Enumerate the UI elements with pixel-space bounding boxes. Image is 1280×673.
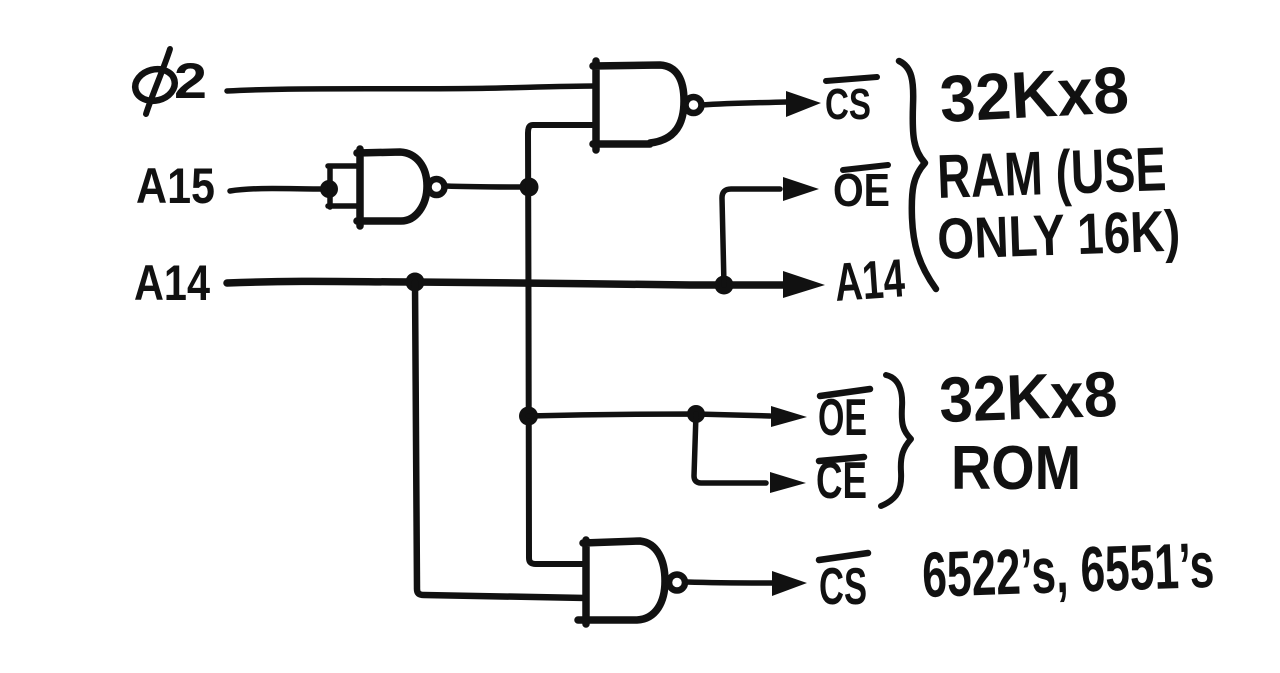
wire U2 output to node N1 <box>446 186 524 187</box>
arrow to OE (ROM) label <box>771 406 807 427</box>
svg-text:32Kx8: 32Kx8 <box>938 358 1118 436</box>
nand U3 output bubble <box>669 575 685 591</box>
wire N1 vertical net to U1 input B and down to U3 input A <box>528 125 596 564</box>
overbar CS (RAM) <box>826 77 877 81</box>
arrow to CS (RAM) label <box>786 91 821 117</box>
svg-text:A15: A15 <box>136 158 215 214</box>
wire phi2 to U1 input A <box>227 86 596 91</box>
overbar OE (ROM) <box>820 389 870 396</box>
wire ROM OE horizontal <box>529 414 771 416</box>
nand U2 (A15 inverter) <box>357 149 427 226</box>
svg-text:OE: OE <box>818 389 867 447</box>
overbar OE (RAM) <box>843 165 888 170</box>
node N1/ROM junction <box>519 407 538 426</box>
wire U3 output <box>687 582 772 583</box>
svg-text:6522’s, 6551’s: 6522’s, 6551’s <box>921 529 1215 611</box>
svg-text:CS: CS <box>819 558 867 616</box>
svg-text:ROM: ROM <box>951 434 1081 503</box>
svg-text:ONLY 16K): ONLY 16K) <box>936 199 1181 272</box>
wire U1 output <box>702 102 786 105</box>
overbar CS (6522) <box>819 553 868 560</box>
arrow to CE (ROM) label <box>770 472 806 493</box>
arrow to OE (RAM) label <box>783 177 819 201</box>
nand U2 output bubble <box>429 179 445 195</box>
brace RAM group <box>899 61 936 289</box>
arrow to A14 output label <box>786 282 800 289</box>
wire U2 tied-input bracket <box>328 166 359 207</box>
wire A15 input <box>230 189 320 192</box>
svg-text:OE: OE <box>833 164 890 216</box>
label phi2 : phi glyph <box>132 65 178 105</box>
overbar CE (ROM) <box>819 457 864 461</box>
arrow to CS (6522) label <box>772 571 807 596</box>
svg-text:CS: CS <box>825 80 871 129</box>
brace ROM group <box>881 375 911 506</box>
node ROM OE/CE junction <box>687 405 705 423</box>
svg-text:CE: CE <box>816 452 867 510</box>
wire ROM CE branch <box>694 414 766 483</box>
node N1 junction (inverted A15 net) <box>520 178 539 197</box>
node A14/OE-branch junction <box>715 276 734 295</box>
svg-text:2: 2 <box>174 53 207 109</box>
svg-text:A14: A14 <box>833 248 907 313</box>
wire A14 down to U3 input B <box>415 282 586 598</box>
nand U1 output bubble <box>686 97 702 113</box>
nand U3 (bottom, CS 6522s) <box>578 540 665 624</box>
svg-text:32Kx8: 32Kx8 <box>938 52 1131 136</box>
svg-text:A14: A14 <box>134 255 210 311</box>
wire A14 input long horizontal <box>227 281 786 285</box>
node A14/vertical junction <box>406 273 425 292</box>
nand U1 (top, CS RAM) <box>593 61 684 150</box>
wire OE branch up from A14 <box>722 189 780 285</box>
node A15 input junction <box>320 180 338 198</box>
